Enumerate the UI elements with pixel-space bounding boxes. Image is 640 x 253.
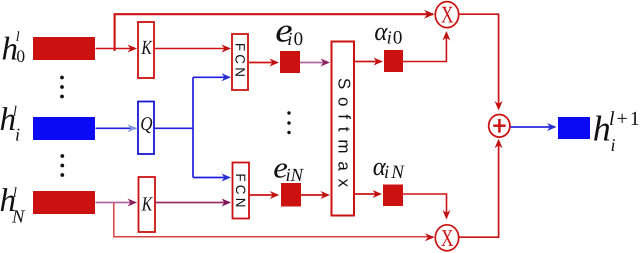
alpha_iN square bbox=[383, 185, 403, 207]
wire alpha_i0 up to X1 bbox=[403, 33, 446, 62]
svg-text:i: i bbox=[287, 30, 292, 50]
wire plus to output rect (blue) bbox=[511, 126, 555, 128]
svg-text:Softmax: Softmax bbox=[335, 78, 354, 195]
e_iN square bbox=[281, 183, 301, 207]
svg-text:0: 0 bbox=[16, 46, 25, 66]
wire junction up and top feed line to X1 bbox=[115, 14, 433, 51]
wire Q split to both FCN (blue) bbox=[154, 77, 229, 177]
multiply node X2 bbox=[435, 225, 458, 252]
e_i0 square bbox=[280, 51, 300, 73]
wire X2 to plus node bbox=[459, 142, 499, 238]
svg-text:FCN: FCN bbox=[233, 173, 248, 210]
wire alpha_iN down to X2 bbox=[403, 194, 447, 217]
FCN box FCN2 bbox=[233, 163, 250, 219]
label e_i0 bbox=[275, 13, 303, 50]
Softmax box bbox=[332, 42, 355, 216]
svg-text:N: N bbox=[11, 208, 26, 228]
wire hi to Q (blue) bbox=[96, 127, 137, 129]
wire X1 to plus node bbox=[459, 14, 499, 108]
svg-text:l: l bbox=[16, 30, 20, 45]
node hi feature rect bbox=[33, 117, 95, 140]
multiply node X1 bbox=[435, 2, 458, 29]
wire K1 to FCN1 bbox=[154, 48, 230, 50]
svg-text:l: l bbox=[609, 108, 615, 130]
svg-text:N: N bbox=[390, 162, 405, 183]
svg-text:i: i bbox=[15, 125, 20, 145]
wire e_iN to Softmax bbox=[301, 194, 328, 196]
svg-text:X: X bbox=[441, 2, 453, 28]
svg-text:0: 0 bbox=[393, 27, 403, 48]
node hN feature rect bbox=[33, 191, 95, 214]
svg-text:FCN: FCN bbox=[232, 43, 247, 80]
label e_iN bbox=[273, 151, 304, 186]
plus node bbox=[489, 115, 510, 138]
wire hN to K2 (purple) bbox=[96, 202, 136, 204]
node h0 label bbox=[2, 30, 26, 68]
K box K2 bbox=[139, 177, 156, 232]
wire Softmax to alpha_i0 bbox=[354, 61, 381, 63]
wire e_i0 to Softmax (purple) bbox=[300, 62, 328, 64]
K box K1 bbox=[138, 22, 154, 78]
wire FCN1 to e_i0 bbox=[248, 62, 277, 64]
wire K2 to FCN2 (maroon) bbox=[155, 202, 230, 204]
svg-text:i: i bbox=[611, 135, 616, 155]
svg-text:Q: Q bbox=[140, 114, 152, 135]
node hN label bbox=[0, 183, 26, 228]
svg-text:l: l bbox=[13, 105, 17, 120]
wire h0 to K1 bbox=[96, 48, 136, 50]
svg-text:K: K bbox=[141, 37, 153, 59]
vertical dots between e squares bbox=[287, 111, 290, 134]
node hi label bbox=[0, 102, 20, 145]
svg-text:K: K bbox=[141, 194, 153, 216]
alpha_i0 square bbox=[384, 50, 403, 72]
vertical dots between h0 and hi bbox=[60, 76, 64, 99]
svg-text:i: i bbox=[384, 163, 389, 183]
Q box bbox=[138, 102, 154, 155]
svg-text:l: l bbox=[13, 186, 17, 201]
FCN box FCN1 bbox=[232, 34, 248, 90]
vertical dots between hi and hN bbox=[60, 154, 64, 177]
svg-text:i: i bbox=[387, 28, 392, 48]
node h0 feature rect bbox=[33, 37, 95, 60]
wire FCN2 to e_iN bbox=[249, 194, 278, 196]
label alpha_iN bbox=[373, 152, 406, 183]
wire junction down and bottom feed line to X2 bbox=[114, 203, 433, 237]
svg-text:0: 0 bbox=[294, 29, 304, 50]
label alpha_i0 bbox=[374, 17, 402, 49]
output rect h_i^{l+1} bbox=[558, 117, 590, 139]
wire Softmax to alpha_iN bbox=[354, 193, 380, 195]
svg-text:X: X bbox=[441, 226, 453, 252]
svg-text:+1: +1 bbox=[617, 108, 640, 130]
label h_i^{l+1} bbox=[593, 108, 640, 155]
